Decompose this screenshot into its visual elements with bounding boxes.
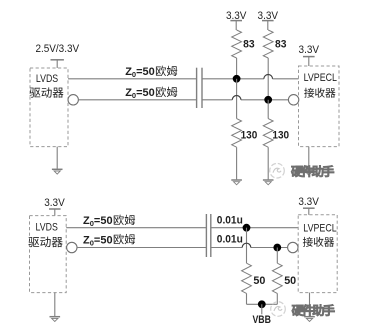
wire [308,147,310,170]
svg-text:3.3V: 3.3V [44,197,65,209]
transmission line label Z0=50ohm [83,215,135,229]
capacitor C3 value 0.01u [217,214,243,226]
power 3.3V label [44,197,65,209]
svg-text:LVPECL: LVPECL [304,72,337,84]
resistor R3 value 130 [241,129,258,141]
wire [273,78,299,80]
junction node [264,96,272,104]
svg-text:3.3V: 3.3V [298,196,319,208]
wire [236,58,238,79]
wire [309,293,311,317]
receiver U4 inverting input bubble [288,242,298,252]
ground [304,317,315,322]
ground [50,317,61,322]
power 3.3V label [226,10,247,22]
power 3.3V symbol [303,57,315,66]
capacitor C3/C4 coupling [206,214,210,257]
wire [261,304,263,314]
wire [236,79,238,119]
ground [263,180,274,185]
resistor R6 50 [272,263,282,293]
power 3.3V symbol [262,21,274,30]
svg-text:83: 83 [243,39,255,51]
power 3.3V symbol [303,208,315,215]
wire hop [242,243,251,247]
resistor R1 value 83 [243,39,255,51]
wire [211,247,242,249]
svg-text:50: 50 [253,275,265,287]
svg-text:2.5V/3.3V: 2.5V/3.3V [35,43,79,55]
svg-text:130: 130 [272,129,289,141]
wire [267,58,269,100]
wire [77,247,207,249]
LVDS driver U3 label [28,221,62,247]
wire hop [264,75,273,79]
ground [52,169,63,174]
driver U1 inverting output bubble [68,95,78,105]
LVPECL receiver U2 box [299,66,340,147]
watermark logo [271,302,335,317]
wire [202,99,232,101]
resistor R3 130 [232,119,242,148]
LVPECL receiver U4 label [303,222,337,246]
svg-text:130: 130 [241,129,258,141]
LVPECL receiver U2 label [304,72,337,98]
resistor R2 value 83 [275,39,287,51]
wire [68,78,197,80]
power rail 2.5V/3.3V symbol [51,60,64,68]
wire [54,293,56,317]
resistor R1 83 [232,30,242,58]
LVDS driver U1 box [30,68,68,147]
power 3.3V label [299,44,320,56]
svg-text:Z0=50: Z0=50 [125,66,155,79]
svg-text:LVDS: LVDS [36,73,58,85]
junction node [243,224,251,232]
watermark logo [270,163,334,178]
wire [276,248,278,264]
wire [202,78,264,80]
receiver U2 inverting input bubble [288,95,298,105]
driver U3 inverting output bubble [67,242,77,252]
wire [267,147,269,179]
wire [236,147,238,179]
svg-text:LVDS: LVDS [36,221,58,233]
wire [247,303,278,305]
svg-text:50: 50 [284,275,296,287]
LVDS driver U1 label [30,73,64,98]
resistor R5 50 [242,263,252,293]
wire [267,100,269,119]
ground [304,170,315,175]
ground [231,180,242,185]
svg-text:Z0=50: Z0=50 [83,234,113,247]
resistor R2 83 [263,30,273,58]
junction node [273,244,281,252]
wire hop [232,96,241,100]
wire [246,228,248,264]
wire [251,247,288,249]
power 3.3V symbol [49,209,61,216]
svg-text:LVPECL: LVPECL [303,222,336,234]
wire [246,293,248,304]
net label VBB [252,314,271,326]
resistor R4 value 130 [272,129,289,141]
resistor R4 130 [263,119,273,148]
power 3.3V label [258,10,279,22]
transmission line label Z0=50ohm [125,66,177,80]
wire [66,227,206,229]
LVDS driver U3 box [30,216,67,293]
svg-text:Z0=50: Z0=50 [83,215,113,228]
wire [211,227,298,229]
power 3.3V symbol [230,21,242,30]
LVPECL receiver U4 box [298,215,337,293]
svg-text:VBB: VBB [252,314,271,326]
resistor R6 value 50 [284,275,296,287]
transmission line label Z0=50ohm [125,87,177,101]
wire [78,99,196,101]
power 3.3V label [298,196,319,208]
resistor R5 value 50 [253,275,265,287]
wire [241,99,289,101]
power rail 2.5V/3.3V label [35,43,79,55]
svg-text:Z0=50: Z0=50 [125,87,155,100]
svg-text:3.3V: 3.3V [299,44,320,56]
wire [276,293,278,304]
svg-text:83: 83 [275,39,287,51]
junction node [233,75,241,83]
svg-text:0.01u: 0.01u [217,233,243,245]
transmission line label Z0=50ohm [83,234,135,248]
capacitor C4 value 0.01u [217,233,243,245]
capacitor C1/C2 coupling [197,68,202,108]
svg-text:0.01u: 0.01u [217,214,243,226]
wire [56,147,58,169]
junction node VBB [258,300,266,308]
